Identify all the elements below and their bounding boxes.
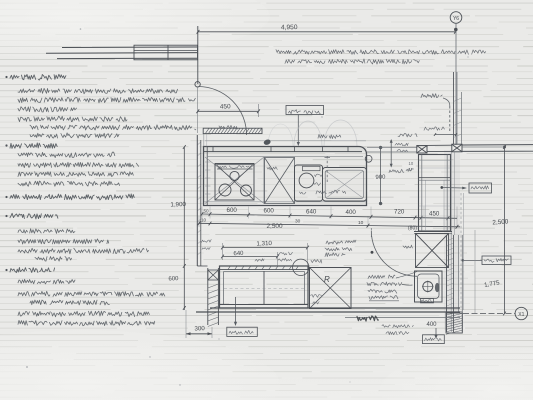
svg-text:450: 450 bbox=[429, 211, 440, 218]
spec text line 2 bbox=[18, 88, 178, 93]
beam boxes bbox=[134, 45, 198, 60]
small dim line 530 bbox=[435, 134, 456, 136]
node at dim/grid bbox=[454, 28, 457, 31]
spec text line 20 bbox=[18, 279, 75, 284]
upper cabinet swing arcs bbox=[294, 121, 322, 146]
upper wall hatch bbox=[454, 98, 462, 138]
note 45 bbox=[300, 192, 306, 194]
door leaf bbox=[197, 87, 199, 133]
counter bottom inner bbox=[204, 201, 366, 203]
svg-text:R: R bbox=[324, 275, 330, 284]
cooktop inner square bbox=[215, 164, 254, 201]
svg-text:640: 640 bbox=[233, 251, 244, 257]
svg-text:640: 640 bbox=[306, 208, 317, 215]
spec title line 8 bbox=[10, 143, 57, 149]
paper specks bbox=[80, 28, 82, 30]
cooktop section light X bbox=[205, 157, 264, 204]
wall top line a bbox=[367, 146, 417, 148]
note temoto bbox=[311, 260, 322, 264]
note 60 bbox=[313, 183, 321, 186]
bottom band line a bbox=[210, 307, 460, 309]
spec text line 5 bbox=[18, 116, 127, 121]
dim row 2 bbox=[199, 223, 460, 227]
svg-text:30: 30 bbox=[295, 219, 301, 225]
spec text line 24 bbox=[18, 320, 155, 325]
spec text line 12 bbox=[18, 181, 120, 186]
powder corner label box bbox=[482, 256, 511, 265]
note (4B) bbox=[311, 295, 322, 298]
graphite shading bbox=[444, 150, 460, 330]
dashed hanging line bbox=[449, 106, 451, 133]
note: gas oven model bbox=[285, 59, 419, 64]
svg-text:1,900: 1,900 bbox=[170, 201, 186, 209]
wall post right of cabinet bbox=[452, 144, 462, 152]
svg-text:10: 10 bbox=[201, 217, 207, 222]
wall top line b bbox=[367, 151, 417, 153]
wall corner vertical / dim extension bbox=[197, 26, 199, 84]
note open floor bbox=[398, 134, 417, 137]
svg-text:4,950: 4,950 bbox=[281, 24, 298, 31]
svg-text:10: 10 bbox=[409, 161, 414, 166]
svg-text:1P: 1P bbox=[409, 167, 414, 172]
basin front box bbox=[421, 299, 434, 303]
dim row 1 bbox=[202, 214, 457, 218]
note F:200 tile bbox=[326, 240, 356, 244]
svg-text:X1: X1 bbox=[518, 312, 524, 318]
left wall double line bbox=[196, 135, 198, 266]
spec text line 7 bbox=[30, 133, 119, 138]
spec text line 22 bbox=[30, 300, 109, 305]
note +445 bbox=[219, 125, 237, 129]
spec title line 13 bbox=[10, 194, 134, 200]
small note at wall bbox=[202, 240, 212, 243]
dishwasher crossed unit bbox=[265, 158, 295, 204]
note 500x8 bbox=[395, 143, 408, 146]
svg-text:Y6: Y6 bbox=[453, 16, 459, 22]
counter left end small marks bbox=[205, 162, 211, 194]
spec text line 18 bbox=[35, 257, 72, 262]
label box glass shelf bbox=[423, 335, 445, 344]
backsplash connector bbox=[203, 134, 205, 147]
dim line 450 door bbox=[198, 110, 259, 112]
left dim line bbox=[183, 147, 185, 310]
leader dot bbox=[441, 186, 443, 188]
refrigerator R bbox=[310, 268, 352, 309]
door hinge circle bbox=[195, 82, 200, 87]
spec text line 9 bbox=[18, 152, 115, 157]
wall post pantry left bbox=[208, 270, 219, 280]
note KOHLER bbox=[368, 275, 395, 279]
dim 640/580 row bbox=[223, 256, 278, 258]
svg-text:(80): (80) bbox=[408, 226, 417, 232]
small note 24 bbox=[267, 167, 279, 170]
leader to counter bbox=[297, 115, 299, 145]
svg-text:600: 600 bbox=[168, 276, 179, 282]
corridor wall verticals bbox=[463, 193, 465, 310]
door swing arc bbox=[198, 87, 246, 136]
spec text line 11 bbox=[18, 172, 133, 177]
spec title line 14 bbox=[10, 213, 58, 219]
note fukuzuridana bbox=[421, 94, 442, 98]
kitchen counter outline bbox=[204, 147, 367, 152]
bottom right hatched block bbox=[446, 313, 462, 333]
gas range label strip bbox=[217, 164, 253, 166]
spec text line 3 bbox=[18, 98, 195, 103]
lower crossed cabinet bbox=[416, 234, 449, 268]
svg-text:2,500: 2,500 bbox=[492, 218, 509, 226]
note 701 bbox=[255, 259, 264, 262]
faucet dark blob bbox=[435, 283, 440, 292]
wall line to right edge a bbox=[462, 144, 533, 146]
dim 1310 bbox=[223, 247, 308, 249]
beam top line bbox=[62, 46, 197, 49]
note 381x33 bbox=[369, 296, 398, 300]
double headed arrow tile bbox=[390, 140, 392, 167]
floor dot bbox=[371, 251, 374, 254]
gas cock bbox=[263, 139, 271, 146]
label box pantry bbox=[227, 327, 257, 336]
leader to powder label bbox=[464, 260, 482, 262]
spec title line 1 bbox=[10, 74, 66, 80]
tall cabinet shokkidana bbox=[419, 155, 451, 232]
pantry leader bbox=[235, 297, 237, 324]
cabinet inner left bbox=[421, 155, 423, 232]
left wall lower column bbox=[197, 265, 207, 267]
pantry shelf dashed bbox=[224, 288, 304, 290]
cabinet shelf line bbox=[419, 177, 451, 179]
soap tray bbox=[303, 166, 321, 170]
svg-text:600: 600 bbox=[227, 207, 238, 214]
spec text line 6 bbox=[30, 125, 196, 130]
note 580 (1297) bbox=[278, 252, 293, 255]
note 980x450 bbox=[316, 190, 346, 194]
label box kitchen counter bbox=[286, 106, 324, 115]
upper wall line a bbox=[453, 72, 455, 144]
counter top inner line bbox=[204, 151, 363, 153]
section divider bbox=[263, 158, 265, 204]
wall post left of cabinet bbox=[417, 146, 427, 154]
svg-text:400: 400 bbox=[346, 209, 357, 216]
spec text line 4 bbox=[18, 107, 77, 112]
grid bubble Y6 bbox=[450, 12, 462, 24]
beam bottom line bbox=[57, 57, 197, 59]
pantry top hatch ticks bbox=[228, 266, 298, 269]
left wall hatch ticks bbox=[197, 142, 201, 255]
temoto circle bbox=[293, 259, 309, 275]
note: gas range model bbox=[276, 50, 486, 55]
spec title line 19 bbox=[10, 268, 55, 273]
basin circle bbox=[423, 282, 433, 292]
dashed divider bbox=[326, 156, 328, 182]
note 5x45 bbox=[397, 149, 408, 152]
note new tile bbox=[389, 168, 412, 172]
svg-text:1,310: 1,310 bbox=[256, 240, 272, 248]
bottom band line b bbox=[196, 311, 460, 313]
label box shokkidana bbox=[469, 183, 492, 193]
beam mid line bbox=[46, 52, 197, 55]
spec text line 15 bbox=[18, 229, 75, 234]
pantry divider bbox=[263, 271, 265, 305]
pantry counter bbox=[220, 266, 309, 308]
counter front inner line bbox=[207, 156, 363, 158]
svg-text:720: 720 bbox=[394, 209, 405, 216]
note 110 bbox=[315, 174, 323, 177]
dim extension stubs bbox=[199, 207, 457, 228]
faucet circle bbox=[299, 173, 314, 188]
svg-text:400: 400 bbox=[427, 322, 438, 328]
right wall lower bbox=[446, 235, 448, 332]
burner 1 bbox=[219, 184, 231, 196]
upper wall line c bbox=[461, 92, 463, 144]
wall line between posts bbox=[427, 144, 452, 146]
right counter inner unit bbox=[323, 168, 367, 202]
backsplash hatched bar bbox=[203, 128, 262, 133]
svg-text:900: 900 bbox=[375, 175, 386, 181]
note kouhan jindai bbox=[318, 134, 341, 138]
note zumenshuu bbox=[357, 316, 378, 321]
spec text block bbox=[5, 76, 7, 78]
cabinet inner right bbox=[446, 155, 448, 232]
dimension line 4950 bbox=[198, 31, 456, 33]
svg-text:600: 600 bbox=[264, 208, 275, 215]
spec text line 21 bbox=[18, 291, 165, 296]
underline bbox=[369, 300, 399, 302]
spec text line 23 bbox=[18, 311, 150, 317]
door jamb dashes bbox=[370, 228, 372, 237]
sink unit bbox=[295, 165, 323, 201]
grid line Y6 vertical bbox=[455, 23, 457, 145]
grid bubble X1 bbox=[463, 313, 515, 315]
bottom band line c bbox=[345, 317, 460, 319]
upper wall line b bbox=[456, 72, 458, 144]
counter back line bbox=[205, 140, 366, 142]
right vertical dim line bbox=[504, 147, 506, 314]
svg-text:450: 450 bbox=[220, 103, 231, 110]
note halogen light bbox=[382, 325, 413, 328]
cabinet interior extra lines bbox=[419, 160, 451, 162]
vertical measure 900 with dots bbox=[380, 148, 382, 204]
svg-text:300: 300 bbox=[194, 325, 205, 332]
burner 2 bbox=[241, 185, 252, 196]
powder basin unit bbox=[415, 271, 443, 302]
cabinet bottom band a bbox=[414, 231, 452, 233]
wall line to right edge b bbox=[462, 150, 533, 152]
note 5/R bbox=[403, 245, 412, 248]
small circle marker B bbox=[365, 155, 372, 162]
door swing arc right bbox=[371, 231, 417, 277]
spec text line 16 bbox=[18, 239, 109, 244]
svg-text:2,500: 2,500 bbox=[267, 223, 283, 230]
right wall extra verticals bbox=[450, 152, 452, 332]
note NORTHLAND bbox=[367, 282, 402, 286]
counter band unit ticks bbox=[213, 147, 348, 152]
note +530 bbox=[424, 127, 444, 131]
down arrow bbox=[435, 328, 437, 337]
svg-text:10: 10 bbox=[358, 220, 364, 226]
burner 3 bbox=[230, 171, 239, 180]
counter left inner bbox=[206, 147, 208, 206]
spec text line 17 bbox=[18, 248, 149, 254]
note K-0409-2 bbox=[368, 289, 397, 293]
svg-text:50: 50 bbox=[204, 208, 210, 213]
spec text line 10 bbox=[18, 162, 139, 167]
